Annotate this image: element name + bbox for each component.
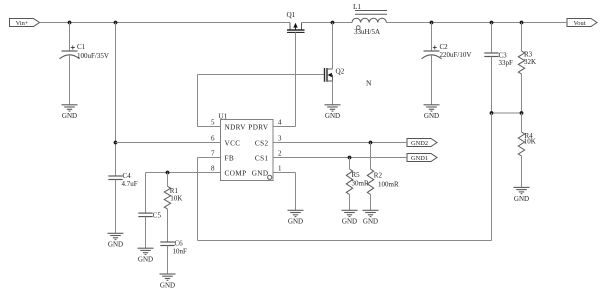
pin 7 FB <box>211 150 234 163</box>
svg-text:100uF/35V: 100uF/35V <box>77 52 109 60</box>
wire COMP pin8 <box>146 172 221 174</box>
junction at VCC tap <box>114 21 118 25</box>
junction R2 top <box>369 141 373 145</box>
wire C3 to divider node <box>491 57 493 114</box>
svg-text:N: N <box>366 79 372 88</box>
svg-text:Vin+: Vin+ <box>16 20 29 27</box>
net flag Vout (Vout) <box>567 19 597 28</box>
svg-text:FB: FB <box>225 155 235 163</box>
ground below C5 <box>138 248 154 263</box>
junction R3/R4 <box>520 111 524 115</box>
wire L1 to Vout <box>387 22 568 24</box>
inductor L1 <box>352 3 387 36</box>
wire C4 to ground <box>115 180 117 234</box>
svg-text:220uF/10V: 220uF/10V <box>440 51 472 59</box>
svg-text:4.7uF: 4.7uF <box>122 180 138 188</box>
resistor R3 <box>518 23 524 114</box>
svg-text:4: 4 <box>278 119 282 127</box>
pin 5 NDRV <box>211 119 246 132</box>
transistor Q2 <box>325 68 345 82</box>
capacitor C6 <box>160 242 174 246</box>
ground below C2 <box>424 105 440 120</box>
svg-text:COMP: COMP <box>225 170 247 178</box>
junction at C2 tap <box>430 21 434 25</box>
svg-text:GND: GND <box>160 281 175 289</box>
svg-text:GND: GND <box>288 218 303 226</box>
svg-text:GND: GND <box>138 256 153 264</box>
pin 2 CS1 <box>255 150 282 163</box>
resistor R4 <box>518 113 524 187</box>
resistor R5 <box>346 158 352 211</box>
op-amp / controller U1 <box>219 112 274 180</box>
ground below C4 <box>108 233 124 248</box>
wire C1 to ground <box>69 55 71 105</box>
svg-text:GND: GND <box>342 218 357 226</box>
wire rail to C3 <box>491 23 493 54</box>
junction at Q2 drain <box>331 21 335 25</box>
capacitor C5 <box>138 213 152 217</box>
resistor R1 <box>164 173 170 243</box>
wire Vin+ rail to Q1 <box>40 22 291 24</box>
svg-text:NDRV: NDRV <box>225 124 247 132</box>
svg-text:C4: C4 <box>123 172 132 180</box>
resistor R2 <box>367 143 373 211</box>
capacitor C1 <box>60 46 80 59</box>
wire divider node <box>492 112 522 114</box>
svg-text:R2: R2 <box>374 172 383 180</box>
junction R1 top <box>166 171 170 175</box>
ground below R5 <box>342 210 358 225</box>
svg-text:3: 3 <box>278 135 282 143</box>
wire NDRV pin5 to Q2 gate <box>198 126 221 128</box>
svg-text:R5: R5 <box>352 171 361 179</box>
pin 1 GND <box>252 165 282 178</box>
junction VCC <box>114 141 118 145</box>
wire VCC node to pin 6 <box>116 142 221 144</box>
svg-text:PDRV: PDRV <box>248 124 269 132</box>
svg-text:C6: C6 <box>175 240 184 248</box>
svg-text:VCC: VCC <box>225 140 241 148</box>
capacitor C3 <box>484 53 498 57</box>
svg-text:CS2: CS2 <box>255 140 269 148</box>
svg-text:GND: GND <box>363 218 378 226</box>
svg-text:30mR: 30mR <box>352 180 369 188</box>
wire rail to C1 <box>69 23 71 52</box>
net flag Vin+ (Vin) <box>10 19 40 28</box>
capacitor C2 <box>422 46 442 59</box>
svg-text:GND: GND <box>514 195 529 203</box>
junction at C3 tap <box>490 21 494 25</box>
svg-text:8: 8 <box>211 165 215 173</box>
net flag GND1 (GND1) <box>407 154 437 163</box>
svg-text:10K: 10K <box>524 138 536 146</box>
ground below R2 <box>363 210 379 225</box>
wire FB pin7 feedback loop <box>198 157 221 159</box>
junction R5 top <box>348 156 352 160</box>
svg-text:10nF: 10nF <box>173 248 188 256</box>
svg-text:GND1: GND1 <box>411 155 428 162</box>
svg-text:10K: 10K <box>170 195 182 203</box>
svg-text:GND: GND <box>424 112 439 120</box>
svg-text:100mR: 100mR <box>378 181 399 189</box>
wire C2 to ground <box>431 55 433 105</box>
svg-text:5: 5 <box>211 119 215 127</box>
pin 6 VCC <box>211 135 240 148</box>
svg-text:6: 6 <box>211 135 215 143</box>
svg-text:GND: GND <box>252 170 269 178</box>
svg-text:2: 2 <box>278 150 282 158</box>
svg-text:L1: L1 <box>353 3 361 11</box>
svg-text:Vout: Vout <box>574 20 586 27</box>
svg-text:C2: C2 <box>440 43 449 51</box>
wire PDRV pin4 to Q1 gate <box>273 126 296 128</box>
svg-text:GND: GND <box>62 112 77 120</box>
wire C6 to ground <box>167 246 169 275</box>
svg-text:1: 1 <box>278 165 282 173</box>
svg-text:CS1: CS1 <box>255 155 269 163</box>
svg-text:C1: C1 <box>77 43 86 51</box>
junction at C1 tap <box>68 21 72 25</box>
wire C5 to ground <box>145 217 147 249</box>
wire Q1 to L1 <box>302 22 353 24</box>
wire GND pin1 to ground <box>273 172 296 174</box>
svg-text:Q1: Q1 <box>287 11 296 19</box>
svg-text:33uH/5A: 33uH/5A <box>354 28 380 36</box>
svg-text:32K: 32K <box>524 58 536 66</box>
transistor Q1 <box>287 11 305 32</box>
wire Q2 drain to rail <box>332 23 334 70</box>
svg-text:GND2: GND2 <box>411 140 428 147</box>
ground below Q2 <box>325 105 341 120</box>
ground below C6 <box>160 274 176 289</box>
pin 3 CS2 <box>255 135 282 148</box>
svg-text:C5: C5 <box>153 212 162 220</box>
svg-text:GND: GND <box>325 112 340 120</box>
capacitor C4 <box>108 176 122 180</box>
ground below R4 <box>514 187 530 202</box>
junction C3/FB <box>490 111 494 115</box>
pin 4 PDRV <box>248 119 282 132</box>
junction at R3 tap <box>520 21 524 25</box>
wire CS1 pin2 to GND1 flag <box>273 157 407 159</box>
svg-text:GND: GND <box>108 241 123 249</box>
ground below C1 <box>62 105 78 120</box>
svg-text:33pF: 33pF <box>499 59 514 67</box>
net flag GND2 (GND2) <box>407 139 437 148</box>
ground below U1 pin1 <box>288 210 304 225</box>
svg-text:Q2: Q2 <box>336 68 345 76</box>
wire rail down to VCC node and C4 <box>115 23 117 177</box>
wire Q2 source to ground <box>332 81 334 105</box>
svg-text:7: 7 <box>211 150 215 158</box>
wire COMP down to C5 <box>145 173 147 214</box>
wire CS2 pin3 to GND2 flag <box>273 142 407 144</box>
wire rail to C2 <box>431 23 433 52</box>
pin 8 COMP <box>211 165 246 178</box>
svg-text:U1: U1 <box>219 112 228 120</box>
